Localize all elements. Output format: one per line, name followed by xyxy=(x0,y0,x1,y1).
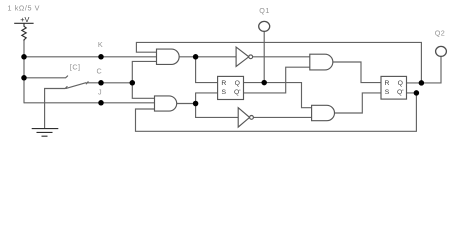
svg-text:Q2: Q2 xyxy=(435,29,446,38)
svg-text:Q': Q' xyxy=(397,89,404,96)
svg-text:1 kΩ/5 V: 1 kΩ/5 V xyxy=(8,4,41,13)
svg-text:C: C xyxy=(97,66,103,75)
svg-text:R: R xyxy=(385,80,390,87)
svg-text:[C]: [C] xyxy=(70,62,81,71)
svg-text:Q: Q xyxy=(398,80,403,87)
svg-text:R: R xyxy=(221,80,226,87)
svg-text:Q': Q' xyxy=(234,89,241,96)
svg-text:Q1: Q1 xyxy=(259,6,270,15)
svg-text:+V: +V xyxy=(20,15,29,24)
svg-text:S: S xyxy=(385,89,390,96)
svg-text:S: S xyxy=(222,89,227,96)
svg-text:Q: Q xyxy=(235,80,240,87)
svg-text:K: K xyxy=(98,40,103,49)
svg-text:J: J xyxy=(98,88,102,97)
